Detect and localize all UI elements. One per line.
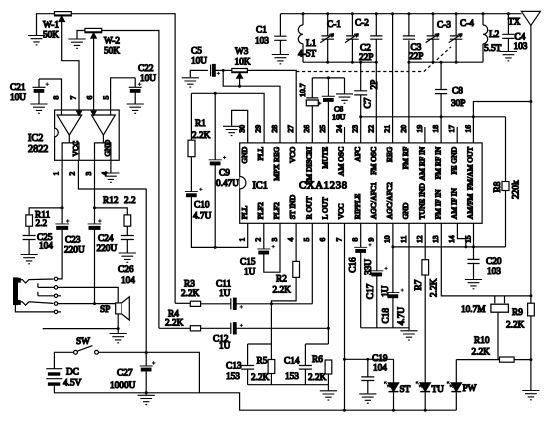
capacitor C19 104 (361, 354, 388, 393)
svg-text:SW: SW (76, 337, 90, 347)
svg-text:16: 16 (463, 125, 472, 133)
svg-text:L OUT: L OUT (321, 197, 330, 219)
svg-text:C15: C15 (240, 258, 256, 268)
svg-text:1U: 1U (219, 289, 231, 299)
svg-text:10U: 10U (191, 57, 207, 67)
svg-text:4: 4 (286, 238, 295, 242)
capacitor C22 10U (129, 64, 157, 104)
svg-text:GND: GND (401, 202, 410, 219)
wire pin8 into A1 (61, 110, 63, 115)
capacitor C2 22P (359, 12, 382, 63)
wire C5 node down and right to pin28 MPX REG (223, 70, 280, 142)
LED TU (416, 382, 444, 411)
wire speaker bottom to ground line (117, 314, 119, 329)
ground under R6 bus (320, 391, 337, 400)
svg-text:5: 5 (102, 96, 111, 100)
wire W3 right to pin27 VCO (247, 70, 296, 142)
branch line to C19 and LED ST (345, 358, 394, 360)
svg-text:19: 19 (415, 125, 424, 133)
antenna TX (508, 11, 540, 101)
svg-text:10K: 10K (235, 58, 251, 68)
capacitor C8 30P (435, 61, 465, 109)
svg-text:2.2K: 2.2K (273, 285, 292, 295)
ground at C21 (30, 104, 47, 113)
svg-text:220k: 220k (511, 180, 521, 199)
wire AFC line down to pin23 (360, 117, 362, 143)
ceramic filter 10.7M (461, 296, 508, 360)
svg-text:18: 18 (431, 125, 440, 133)
svg-text:FM OSC: FM OSC (369, 147, 378, 175)
speaker SP (100, 297, 129, 320)
wire C8 down to pin18 FM RF IN (440, 94, 442, 143)
node LED ST on rail (392, 409, 395, 412)
svg-text:R7: R7 (414, 279, 424, 290)
svg-text:4.5V: 4.5V (63, 379, 82, 389)
svg-text:C13: C13 (226, 361, 242, 371)
svg-text:C-1: C-1 (327, 20, 341, 30)
node pin10 AGC line start (391, 245, 394, 248)
C14/R6 top bus (305, 343, 328, 345)
node C12/pin6 (327, 327, 330, 330)
battery DC 4.5V (46, 368, 81, 389)
svg-text:IC1: IC1 (253, 180, 268, 191)
svg-text:24: 24 (334, 125, 343, 133)
svg-text:C7: C7 (363, 97, 373, 108)
svg-text:23: 23 (350, 125, 359, 133)
svg-text:REG: REG (385, 146, 394, 162)
A1 output wires to pins 1,2 (62, 135, 79, 160)
jack contact 2 (54, 286, 57, 289)
ground at C19 (359, 394, 376, 403)
resistor R8 220k (493, 117, 522, 247)
capacitor C18 4.7U on pin10 AGC/AFC2 (381, 223, 407, 327)
svg-text:103: 103 (487, 267, 501, 277)
IC1 bottom pin numbers (238, 235, 473, 243)
capacitor C9 0.47U (209, 93, 240, 247)
wire discri line right end to ground (344, 78, 346, 94)
svg-text:5.5T: 5.5T (484, 44, 502, 54)
capacitor C17 1U on pin9 AGC/AFC1 (366, 223, 391, 327)
node R5 branch on R OUT line (270, 302, 273, 305)
svg-text:21: 21 (383, 125, 392, 133)
wire R1 to C10 (190, 157, 192, 192)
wire C5 left to ground (190, 70, 199, 77)
svg-text:GND: GND (240, 146, 249, 163)
capacitor C27 1000U (110, 353, 155, 393)
svg-text:C22: C22 (138, 64, 154, 74)
svg-text:22P: 22P (409, 52, 423, 62)
resistor R11 2.2 (26, 211, 51, 230)
svg-text:2.2: 2.2 (124, 196, 136, 206)
A2 output wires to pins 3,4 (95, 135, 111, 160)
pin19 stub (424, 127, 426, 143)
svg-text:C5: C5 (191, 47, 202, 57)
node pin1/R11/C23 (61, 206, 64, 209)
svg-text:GND: GND (103, 139, 112, 156)
svg-text:7: 7 (69, 96, 78, 100)
svg-text:12: 12 (415, 235, 424, 243)
node C9 bottom on PLL rail (214, 246, 217, 249)
wire rail to ground under C27 (145, 393, 147, 395)
resistor R9 2.2K (506, 303, 534, 330)
capacitor C25 104 (23, 233, 54, 254)
svg-text:AM/FM: AM/FM (466, 194, 475, 220)
node LED TU on rail (424, 409, 427, 412)
IC2 pin1 wire down (61, 160, 63, 223)
wire bottom bus to ground (327, 385, 329, 391)
svg-text:TX: TX (508, 18, 521, 28)
svg-text:50K: 50K (43, 31, 59, 41)
svg-text:C9: C9 (219, 168, 230, 178)
svg-text:C20: C20 (486, 257, 502, 267)
resistor R10 2.2K (472, 336, 531, 362)
op-amp triangle A1 (57, 115, 82, 135)
LED ST (384, 359, 410, 410)
left tank lower bus (303, 61, 376, 63)
node C2 bottom / pin22 riser (375, 61, 378, 64)
R5/C13/C14/R6 bottom bus (248, 384, 329, 386)
stub at contact 5 (58, 311, 61, 313)
AGC line to R8 (393, 246, 506, 248)
svg-text:TUNE IND: TUNE IND (417, 183, 426, 220)
svg-text:13: 13 (431, 235, 440, 243)
svg-text:AM RF IN: AM RF IN (417, 146, 426, 180)
headphone jack body (14, 278, 21, 305)
svg-text:MUTE: MUTE (321, 146, 330, 168)
capacitor C14 153 (284, 344, 312, 385)
svg-text:C-4: C-4 (460, 19, 474, 29)
wire pin6 L OUT down to C14/R6 bus (327, 223, 329, 344)
ground at discri (336, 94, 353, 103)
right tank lower bus (409, 61, 483, 63)
svg-text:L1: L1 (306, 39, 317, 49)
svg-text:2.2K: 2.2K (472, 347, 491, 357)
svg-text:10: 10 (383, 235, 392, 243)
ground at C20 (465, 280, 482, 289)
svg-text:4-5T: 4-5T (298, 50, 316, 60)
variable capacitor C-4 (449, 12, 475, 64)
svg-text:17: 17 (447, 125, 456, 133)
capacitor C20 103 (467, 247, 501, 279)
svg-text:C23: C23 (65, 236, 81, 246)
svg-text:C17: C17 (366, 283, 376, 299)
svg-text:TU: TU (432, 385, 445, 395)
node pin7 branch (343, 358, 346, 361)
switch SW (74, 337, 99, 354)
ground at pin11 (400, 331, 417, 340)
jack contact 4 (54, 302, 57, 305)
svg-text:103: 103 (514, 42, 528, 52)
svg-text:AFC: AFC (353, 147, 362, 162)
svg-text:SP: SP (100, 305, 110, 315)
branch to R5/C13 (248, 304, 272, 344)
svg-text:C1: C1 (256, 26, 267, 36)
capacitor C16 33U on pin8 RIPPLE (348, 223, 374, 327)
svg-text:2.2K: 2.2K (308, 373, 327, 383)
svg-text:11: 11 (399, 235, 408, 243)
svg-text:103: 103 (255, 37, 269, 47)
svg-text:R6: R6 (312, 355, 323, 365)
node C27 on rail (145, 391, 148, 394)
svg-text:PLF2: PLF2 (256, 202, 265, 219)
jack arm 3 (38, 292, 54, 296)
node speaker ground (117, 327, 120, 330)
capacitor C15 1U between pins 2 and 3 (240, 223, 280, 277)
potentiometer W-1 (43, 12, 71, 41)
svg-text:W-1: W-1 (43, 21, 59, 31)
wire lower bus to pin22 FM OSC (375, 62, 377, 143)
svg-text:C24: C24 (98, 234, 114, 244)
svg-text:14: 14 (447, 235, 456, 243)
svg-text:AGC/AFC1: AGC/AFC1 (369, 182, 378, 219)
svg-text:2.2K: 2.2K (430, 278, 440, 297)
jack sleeve arm (15, 305, 54, 312)
svg-text:2.2K: 2.2K (506, 321, 525, 331)
jack contact 3 (54, 294, 57, 297)
arrow into A1 input (77, 110, 82, 115)
IC2 pin3 wire down (94, 160, 96, 223)
variable capacitor C-3 (426, 12, 452, 64)
top tank bus (280, 13, 521, 15)
svg-text:C26: C26 (118, 265, 134, 275)
svg-text:VCC: VCC (337, 203, 346, 219)
svg-text:2.2K: 2.2K (181, 289, 200, 299)
potentiometer W-2 (85, 28, 120, 56)
wire pin14 AM IF IN jog to AGC line (457, 223, 465, 247)
svg-text:L2: L2 (489, 30, 500, 40)
pin17 stub (456, 127, 458, 143)
svg-text:R12: R12 (103, 196, 119, 206)
ground at speaker (110, 334, 127, 343)
ceramic filter 10.7 discriminator (298, 78, 318, 143)
wire W-1 right lead to vertical rail x175 (71, 14, 175, 304)
ground at W-2 (68, 39, 85, 48)
ground at W-1 (28, 36, 45, 45)
variable capacitor C-1 (320, 12, 341, 64)
wire pin16 riser (472, 117, 474, 143)
svg-text:10.7: 10.7 (298, 83, 307, 97)
svg-text:2.2K: 2.2K (165, 319, 184, 329)
wire pin5 R OUT down (311, 223, 313, 303)
inductor L1 4-5T (298, 12, 317, 62)
svg-text:DC: DC (66, 368, 79, 378)
FM discri wire (312, 77, 344, 79)
svg-text:8: 8 (52, 96, 61, 100)
IC1 top pin numbers (238, 125, 473, 133)
capacitor C24 220U (88, 219, 118, 254)
svg-text:R2: R2 (276, 275, 287, 285)
svg-text:PLF2: PLF2 (272, 202, 281, 219)
capacitor C23 220U (55, 219, 85, 255)
svg-text:3: 3 (270, 238, 279, 242)
wire contact1 up to C23 (58, 229, 62, 279)
ground at C25 (21, 255, 38, 264)
svg-text:10U: 10U (140, 74, 156, 84)
svg-text:VCC: VCC (71, 141, 80, 157)
jack tip arm with break contact (20, 279, 53, 283)
svg-text:C10: C10 (194, 201, 210, 211)
svg-text:2.2K: 2.2K (251, 373, 270, 383)
audio line L OUT: rail from W-2 (159, 327, 190, 329)
svg-text:2: 2 (68, 172, 77, 176)
svg-text:29: 29 (254, 125, 263, 133)
node C24/contact4 wire (93, 302, 96, 305)
wire pin5 into A2 (110, 110, 112, 115)
svg-text:2: 2 (254, 238, 263, 242)
wire C21 to IC2 pin8 (39, 79, 62, 110)
wire R12 to C26 (126, 226, 128, 235)
svg-text:MPX REG: MPX REG (272, 146, 281, 180)
node C5/W3 (222, 69, 225, 72)
svg-text:ST IND: ST IND (288, 194, 297, 219)
wire pin13 FM IF IN down to filter line (441, 223, 531, 296)
wire R11 to C25 (28, 226, 30, 235)
svg-text:R1: R1 (195, 119, 206, 129)
wire W-2 left lead to ground (77, 31, 85, 39)
IC2 pin4 wire to ground (110, 160, 112, 172)
capacitor C12 1U (213, 323, 328, 352)
svg-text:ST: ST (400, 385, 411, 395)
node filter line on TX vertical (529, 294, 532, 297)
svg-text:C21: C21 (10, 83, 26, 93)
wire C10 to PLL return rail to pin1 (191, 197, 247, 248)
wire to ground (117, 329, 119, 333)
ground at C1 (272, 55, 289, 64)
svg-text:26: 26 (302, 125, 311, 133)
ground at pin30 (223, 126, 240, 135)
svg-text:9: 9 (367, 238, 376, 242)
capacitor C26 104 (118, 236, 135, 287)
capacitor C1 103 (255, 14, 287, 54)
capacitor C13 153 (226, 344, 254, 385)
svg-text:C18: C18 (381, 308, 391, 324)
ground at C26 (119, 253, 136, 262)
wire pin29 PLL line (191, 93, 264, 143)
ground at IC2 pin4 (102, 173, 119, 182)
svg-text:8: 8 (350, 238, 359, 242)
IC1 bottom pin labels (240, 182, 475, 219)
inductor L2 5.5T (482, 12, 502, 62)
LED PW (447, 360, 477, 411)
svg-text:27: 27 (286, 125, 295, 133)
svg-text:10U: 10U (10, 93, 26, 103)
svg-text:C16: C16 (348, 257, 358, 273)
svg-text:104: 104 (39, 242, 53, 252)
wire pin7 VCC down to rail (344, 223, 346, 410)
svg-text:W3: W3 (235, 47, 249, 57)
svg-text:FM RF IN: FM RF IN (433, 146, 442, 179)
svg-text:FM RF: FM RF (401, 147, 410, 169)
ground at C22 (127, 104, 144, 113)
wire W-1 left lead to ground (37, 14, 55, 35)
node C27 top on switch line (145, 351, 148, 354)
wire W-1 wiper down jog to IC2 pin7 (62, 22, 79, 111)
wire LED PW to R10 line (456, 359, 499, 361)
svg-text:10U: 10U (332, 113, 346, 122)
svg-text:28: 28 (270, 125, 279, 133)
svg-text:RIPPLE: RIPPLE (353, 193, 362, 219)
capacitor C3 22P (403, 12, 424, 62)
ground at C4 (500, 52, 517, 61)
IC U1 CXA1238 body (240, 143, 482, 223)
wire R4 to C12 (201, 327, 231, 329)
node pin3/R12/C24 (93, 206, 96, 209)
svg-text:1: 1 (238, 238, 247, 242)
node R10 on TX vertical (529, 358, 532, 361)
svg-text:FM/AM OUT: FM/AM OUT (466, 147, 475, 191)
resistor R4 2.2K (165, 309, 201, 331)
svg-text:220U: 220U (64, 246, 85, 256)
svg-text:AM IF IN: AM IF IN (450, 188, 459, 220)
svg-text:1U: 1U (219, 342, 231, 352)
capacitor C6 10U (318, 76, 346, 142)
ground under C27 (138, 395, 155, 404)
capacitor C5 10U (191, 47, 223, 77)
wire C3 bottom / right tank bus to pin20 FM RF (408, 40, 410, 143)
resistor R7 2.2K on pin12 TUNE IND (414, 223, 439, 382)
audio line R OUT: rail from W-1 (175, 302, 190, 304)
svg-text:30: 30 (238, 125, 247, 133)
svg-text:C4: C4 (515, 33, 526, 43)
wire TX vertical through R9 (530, 102, 532, 391)
svg-text:C14: C14 (284, 357, 300, 367)
wire C24 down to jack contact 4 line (94, 229, 96, 303)
IC1 top pin labels (240, 146, 475, 190)
svg-text:4.7U: 4.7U (397, 307, 407, 326)
wire R3 to C11 (201, 303, 231, 305)
capacitor C4 103 (502, 12, 527, 52)
jack contact 5 (54, 310, 57, 313)
resistor R1 2.2K (188, 93, 211, 156)
node C9 top (214, 92, 217, 95)
svg-text:10.7M: 10.7M (461, 305, 486, 315)
svg-text:AGC/AFC2: AGC/AFC2 (385, 182, 394, 219)
svg-text:IC2: IC2 (28, 133, 43, 144)
resistor R5 2.2K (251, 344, 275, 385)
svg-text:R8: R8 (493, 181, 503, 192)
svg-text:6: 6 (318, 238, 327, 242)
wire contact4 to speaker left (58, 303, 116, 305)
svg-text:7: 7 (334, 238, 343, 242)
ripple caps bottom bus (361, 327, 409, 329)
svg-text:R OUT: R OUT (304, 196, 313, 219)
svg-text:2.2: 2.2 (36, 219, 48, 229)
jack arm 4 with break contact (20, 302, 53, 305)
battery bottom wire / ground rail (54, 385, 456, 410)
svg-text:FM DISCRI: FM DISCRI (304, 146, 313, 185)
wire switch left to battery (54, 352, 73, 368)
svg-text:50K: 50K (104, 47, 120, 57)
svg-text:30P: 30P (451, 99, 465, 109)
svg-text:0.47U: 0.47U (216, 179, 239, 189)
jack arm 2 (38, 283, 54, 287)
svg-text:1U: 1U (244, 268, 256, 278)
wire C22 to IC2 pin5 (111, 78, 136, 110)
wire pin30 GND up-left to ground (232, 110, 248, 142)
svg-text:6: 6 (85, 96, 94, 100)
capacitor C7 2P on AFC line (354, 61, 380, 117)
resistor R3 2.2K (181, 280, 201, 307)
arrow into A2 input (91, 110, 96, 115)
resistor R2 2.2K on pin4 ST IND (271, 223, 299, 303)
node pin7 on rail (343, 409, 346, 412)
svg-text:C-3: C-3 (437, 21, 451, 31)
wire pin15 AM/FM down to AGC line (473, 223, 475, 247)
wire pin21 REG riser to top bus (392, 14, 394, 143)
svg-text:C-2: C-2 (355, 19, 369, 29)
svg-text:FM IF IN: FM IF IN (433, 189, 442, 219)
IC2 pin2 VCC wire to switch line (78, 160, 146, 352)
